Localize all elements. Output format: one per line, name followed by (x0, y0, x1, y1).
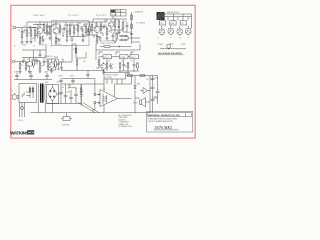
svg-text:10K: 10K (83, 61, 86, 63)
resistor R41 (86, 22, 93, 35)
svg-text:47K: 47K (125, 66, 128, 68)
filter cap C28 (74, 88, 78, 104)
capacitor C3 (44, 31, 50, 34)
svg-text:INPUT JACK: INPUT JACK (34, 14, 46, 17)
ground (50, 71, 53, 73)
svg-text:.05: .05 (72, 23, 74, 25)
capacitor C32 (36, 28, 39, 39)
svg-text:.02: .02 (27, 59, 29, 61)
wire (22, 27, 27, 29)
wire bundle stage1 (24, 25, 46, 39)
ground (20, 42, 23, 44)
long bottom rail wire (31, 112, 151, 114)
label box L3 (180, 21, 186, 25)
svg-text:EL84: EL84 (103, 97, 107, 99)
capacitor C8 (97, 37, 101, 42)
svg-text:CIRCUIT OF AMPLIFIER MODEL: CIRCUIT OF AMPLIFIER MODEL (148, 120, 173, 123)
output stage box drop wires (107, 79, 122, 84)
input jack J1 (12, 25, 22, 29)
capacitor C10 (126, 22, 129, 30)
svg-text:V2: V2 (57, 28, 59, 30)
resistor R43 (119, 35, 132, 41)
svg-text:50MF: 50MF (154, 97, 158, 99)
notes text block (119, 114, 133, 128)
svg-text:82K: 82K (124, 21, 127, 23)
svg-text:.02: .02 (65, 46, 67, 48)
valve base B4 (185, 26, 191, 35)
resistor R20 (122, 20, 124, 32)
svg-text:32MF: 32MF (14, 72, 18, 74)
capacitor C18 (122, 62, 125, 71)
svg-text:V1 OUTPUT: V1 OUTPUT (68, 15, 79, 17)
out cap C30 (151, 76, 158, 96)
node A (34, 26, 37, 29)
phase splitter cluster resistor R18 (114, 19, 116, 30)
svg-text:47K: 47K (102, 28, 105, 30)
resistor R25 (33, 58, 35, 69)
svg-text:220K: 220K (35, 64, 39, 66)
diagonal wires (78, 103, 99, 113)
coupling cap C29 (80, 84, 83, 106)
resistor R26 (39, 61, 41, 71)
resistor R30 horizontal (100, 46, 118, 48)
ground (25, 42, 28, 44)
svg-text:HUM BAL: HUM BAL (62, 124, 70, 127)
svg-text:220K: 220K (62, 32, 66, 34)
svg-text:ECC83: ECC83 (158, 44, 164, 46)
svg-text:100: 100 (146, 79, 149, 81)
wire to speaker (132, 38, 141, 42)
svg-text:TREMOLO: TREMOLO (44, 56, 53, 58)
svg-text:V5: V5 (31, 60, 33, 62)
svg-text:10K: 10K (62, 87, 65, 89)
wire bundle stage3 (92, 19, 107, 38)
valve V5 (27, 58, 33, 71)
valve base B2 (168, 26, 174, 35)
filter cap C27 (69, 90, 73, 104)
mains drop wires (20, 103, 25, 118)
svg-text:16MF +: 16MF + (58, 76, 64, 78)
long vertical feeds from splitter (72, 44, 76, 62)
HT rail 1 wire (62, 71, 104, 73)
mains transformer T2 (157, 12, 165, 20)
capacitor C4 (56, 39, 60, 43)
choke L1 (68, 85, 78, 88)
capacitor C2 (40, 38, 44, 44)
valve V2 (53, 24, 59, 38)
valve V1 (37, 23, 43, 37)
capacitor C12 (20, 60, 26, 63)
svg-text:OP TRANS: OP TRANS (136, 22, 146, 25)
bridge rectifier box (47, 85, 59, 104)
wire (96, 44, 140, 50)
capacitor C35 (151, 98, 155, 113)
ground (95, 42, 98, 44)
wire (111, 30, 120, 33)
resistor R33 (119, 62, 121, 71)
svg-text:16MF: 16MF (67, 92, 71, 94)
valve base B3 (177, 26, 183, 35)
capacitor C5 (60, 27, 67, 30)
wires controls (99, 57, 134, 62)
psu rail wire (14, 73, 52, 80)
resistor R17 (106, 27, 108, 39)
capacitor C9 (100, 25, 107, 28)
svg-text:100K: 100K (41, 45, 45, 47)
left band small labels (14, 45, 68, 48)
capacitor C36 (82, 30, 85, 40)
transformer T1 secondary (43, 84, 46, 103)
capacitor C15 (57, 60, 60, 68)
svg-text:22K: 22K (79, 27, 82, 29)
resistor R3 (33, 28, 36, 42)
resistor R24 (25, 62, 27, 72)
svg-text:220K: 220K (32, 38, 36, 40)
svg-text:+: + (62, 90, 63, 92)
resistor R36 (80, 84, 82, 104)
capacitor C19 (133, 62, 136, 71)
resistor R11 (73, 25, 75, 37)
driver box label (104, 73, 126, 80)
transformer leg wires (38, 102, 45, 113)
ground (65, 40, 68, 42)
svg-text:.02: .02 (105, 24, 107, 26)
resistor R15 (96, 36, 98, 42)
svg-text:V6: V6 (53, 62, 55, 64)
svg-text:100K: 100K (45, 27, 49, 29)
ground (113, 41, 116, 43)
svg-text:470K: 470K (75, 29, 79, 31)
svg-text:.05: .05 (33, 46, 35, 48)
svg-text:VOLTAGES ±10%: VOLTAGES ±10% (119, 125, 133, 128)
fuse F1 (21, 107, 24, 110)
svg-text:2 x EL84: 2 x EL84 (105, 77, 112, 79)
resistor R37 (128, 75, 133, 77)
svg-text:.05: .05 (45, 61, 47, 63)
svg-text:VALVE BASE DIAGRAMS: VALVE BASE DIAGRAMS (158, 52, 183, 55)
psu bottom rail (47, 84, 83, 104)
svg-text:.02: .02 (60, 62, 62, 64)
svg-text:.02: .02 (24, 26, 26, 28)
resistor R27 (47, 59, 49, 70)
hum pot R39 (61, 113, 72, 127)
resistor R9 (59, 24, 61, 35)
ground (28, 72, 31, 74)
wire bridge to rail (52, 104, 54, 113)
svg-text:.05: .05 (108, 61, 110, 63)
resistor R1 (21, 28, 23, 43)
resistor R5 (43, 22, 45, 33)
svg-text:+: + (154, 85, 155, 87)
resistor R13 (85, 24, 87, 36)
ground (81, 40, 84, 42)
ground (18, 72, 21, 74)
wire w arrow (118, 46, 132, 48)
capacitor C7 (81, 26, 84, 32)
wire (46, 59, 59, 70)
resistor R35 (137, 62, 139, 71)
ground (105, 38, 108, 40)
op-amp U1 (power stage triangle) (97, 84, 132, 113)
output transformer vertical wire (131, 12, 133, 44)
ground (29, 42, 32, 44)
svg-text:VOL 2: VOL 2 (131, 57, 136, 59)
rectifier base B5 (166, 44, 170, 49)
svg-text:VOL 1: VOL 1 (104, 57, 109, 59)
wire rails mid (65, 22, 96, 37)
svg-text:.05: .05 (121, 30, 123, 32)
svg-text:.02: .02 (64, 27, 66, 29)
svg-text:8Ω 15Ω: 8Ω 15Ω (111, 14, 117, 16)
svg-text:SPEAKER: SPEAKER (135, 11, 144, 14)
svg-text:250K: 250K (23, 45, 27, 47)
wires PI (107, 19, 127, 32)
valve V6 (49, 59, 55, 71)
resistor R16 (100, 22, 102, 33)
small driver triangle Q1 (140, 88, 150, 94)
resistor R2 (26, 28, 28, 42)
svg-text:5676 MKI.: 5676 MKI. (155, 125, 173, 130)
resistor R31 (98, 57, 100, 68)
wire (76, 52, 86, 58)
capacitor C21 (29, 74, 33, 80)
ground (48, 38, 51, 40)
svg-text:SPKR: SPKR (133, 103, 138, 105)
HT rail wire (27, 22, 65, 28)
capacitor C37 (87, 28, 90, 36)
resistor R14 (91, 22, 93, 34)
ground (54, 43, 57, 45)
wire top rail extension (96, 22, 107, 27)
svg-text:350V: 350V (45, 82, 49, 84)
resistor R22 (131, 24, 133, 29)
resistor R42 (116, 33, 118, 41)
capacitor C20 (15, 74, 19, 80)
svg-text:5 6: 5 6 (179, 38, 181, 40)
capacitor C11 (130, 34, 133, 35)
filter cap C26 (64, 84, 68, 104)
node (114, 18, 117, 21)
svg-text:V7: V7 (97, 62, 99, 64)
top out rail (126, 76, 158, 99)
heater bus wires (164, 14, 191, 29)
svg-text:32MF: 32MF (28, 72, 32, 74)
amp rail top (82, 79, 132, 91)
op-amp inner detail (98, 94, 106, 105)
resistor R28 (55, 59, 57, 70)
resistor R44 (69, 25, 71, 37)
capacitor C6 (67, 23, 74, 29)
resistor R10 (66, 29, 68, 40)
resistor R21 (131, 15, 133, 20)
svg-text:25MF: 25MF (58, 45, 62, 47)
capacitor C1 (27, 26, 33, 29)
logo WATKINS (10, 130, 35, 135)
resistor R7 (48, 26, 52, 38)
out cap C31 (156, 76, 160, 101)
capacitor C23 (59, 78, 63, 84)
heater bus labels (157, 11, 189, 39)
control box VOLUME (103, 55, 112, 59)
resistor R4 (39, 37, 41, 43)
HT rail 2 wire (62, 79, 95, 89)
valve base B1 (159, 26, 165, 35)
diode D5 (134, 82, 136, 93)
title block (147, 112, 193, 133)
speaker SP1 (133, 98, 146, 107)
ground (38, 71, 41, 73)
svg-text:TONE CONTROLS: TONE CONTROLS (100, 43, 115, 45)
mains transformer T1 primary (37, 84, 40, 103)
svg-text:330K: 330K (87, 29, 91, 31)
capacitor C22 (45, 74, 49, 80)
resistor R19 (118, 19, 120, 31)
transformer core (40, 84, 44, 103)
extra mid wires (22, 50, 46, 58)
resistor R34 (127, 62, 129, 71)
capacitor C34 (39, 53, 42, 58)
svg-text:1 2: 1 2 (157, 38, 159, 40)
rail labels (57, 61, 86, 84)
node (39, 21, 42, 24)
svg-text:OP 15: OP 15 (116, 11, 120, 13)
resistor R29 (75, 48, 77, 53)
resistor R23 (19, 62, 21, 72)
svg-text:.05: .05 (48, 33, 50, 35)
svg-text:WEM: WEM (28, 131, 35, 135)
capacitor C16 (60, 67, 63, 72)
svg-text:470K: 470K (73, 49, 77, 51)
svg-text:220K: 220K (116, 20, 120, 22)
svg-text:EZ80: EZ80 (182, 44, 186, 46)
capacitor C33 (112, 33, 115, 41)
wire driver feed (95, 50, 97, 60)
mains switch box (19, 84, 37, 103)
control box VOLUME2 (130, 55, 139, 59)
svg-text:100K: 100K (93, 27, 97, 29)
svg-text:16MF: 16MF (128, 32, 132, 34)
svg-text:3 4: 3 4 (170, 37, 172, 39)
svg-text:OUTPUT STAGE: OUTPUT STAGE (105, 74, 119, 77)
svg-text:V2 OUTPUT: V2 OUTPUT (96, 15, 107, 17)
wire bundle stage2 (49, 21, 64, 36)
svg-text:.05: .05 (130, 61, 132, 63)
border frame (11, 5, 195, 138)
svg-text:47K: 47K (41, 66, 44, 68)
resistor R38 (140, 75, 145, 77)
label box L2 (170, 21, 176, 25)
bus bottom wire (160, 48, 186, 50)
svg-text:68K: 68K (28, 33, 31, 35)
capacitor C17 (109, 63, 112, 69)
ground (38, 43, 41, 45)
svg-text:7 8: 7 8 (187, 37, 189, 39)
wire band connect (45, 44, 47, 58)
value labels scatter (18, 20, 158, 99)
svg-text:16MF: 16MF (44, 72, 48, 74)
svg-text:.02: .02 (121, 61, 123, 63)
resistor R12 (77, 22, 79, 34)
wire rail mid-left (22, 58, 46, 72)
svg-text:285V: 285V (57, 69, 61, 71)
svg-text:HTRS: HTRS (170, 23, 174, 25)
mains plug P1 (11, 91, 19, 100)
wire bundle module (64, 22, 88, 39)
resistor R6 (46, 22, 48, 36)
control box TONE (120, 55, 129, 59)
svg-text:L E N: L E N (18, 120, 23, 122)
wire (35, 27, 37, 29)
capacitor C14 (43, 58, 46, 66)
label box L1 (159, 21, 165, 25)
capacitor C13 (34, 59, 41, 62)
resistor R45 (76, 58, 78, 71)
ground (102, 72, 105, 74)
valve V3 (94, 22, 100, 36)
capacitor C24 (71, 78, 75, 84)
resistor R8 (55, 38, 57, 44)
wire bundle splitter (113, 16, 128, 36)
ground (126, 73, 130, 75)
bridge rectifier D1-D4 (48, 85, 59, 104)
title VALVE BASE DIAGRAMS (158, 52, 184, 55)
ground (117, 32, 120, 34)
table box output matrix (111, 10, 127, 17)
jack J2 (11, 59, 20, 63)
svg-text:.01: .01 (50, 46, 52, 48)
resistor R32 (106, 62, 108, 71)
svg-text:8MF +: 8MF + (70, 76, 75, 78)
module box (channel enclosure) (52, 21, 90, 46)
svg-text:V4: V4 (112, 22, 114, 24)
wire to right (59, 62, 73, 67)
speaker wires (135, 76, 158, 113)
svg-text:25MF: 25MF (83, 26, 87, 28)
valve V4 phase inverter (108, 20, 113, 31)
svg-text:WATKINS EL. PRODUCTS CO. LTD: WATKINS EL. PRODUCTS CO. LTD (148, 114, 180, 117)
svg-text:250V: 250V (57, 82, 61, 84)
svg-text:+: + (159, 89, 160, 91)
svg-text:WATKINS: WATKINS (10, 130, 29, 135)
input pads (92, 88, 96, 110)
ground (71, 41, 73, 42)
svg-text:+: + (77, 92, 78, 94)
wire bundle controls (96, 52, 134, 68)
wire bundle tremolo (24, 57, 63, 69)
resistor R40 (30, 28, 32, 42)
svg-text:.01: .01 (14, 46, 16, 48)
filter cap C25 (59, 84, 63, 104)
capacitor C38 (86, 71, 89, 79)
valve V7 (101, 62, 107, 72)
ground row (118, 71, 139, 72)
svg-text:V3: V3 (98, 26, 100, 28)
